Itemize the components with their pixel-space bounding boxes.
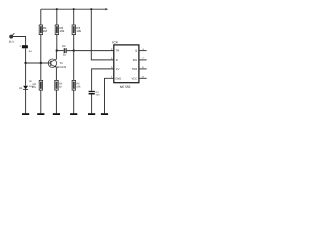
ground (R4): [37, 113, 44, 115]
node rail-R2: [56, 8, 58, 10]
wire D1 to ground: [25, 90, 27, 114]
svg-text:47k: 47k: [32, 86, 37, 89]
wire C4 to ground: [91, 95, 93, 114]
svg-text:+: +: [19, 44, 21, 48]
node trigger: [73, 49, 75, 51]
svg-text:10k: 10k: [76, 85, 81, 88]
svg-text:R: R: [116, 59, 118, 62]
svg-text:10n: 10n: [96, 94, 101, 97]
wire emitter to R5: [55, 67, 57, 80]
wire pin4 reset from rail: [91, 9, 113, 60]
wire R3 to trigger node: [73, 34, 75, 50]
node rail-R3: [73, 8, 75, 10]
node C1-D1: [24, 62, 26, 64]
wire R5 to ground: [55, 90, 57, 113]
resistor R3: [72, 25, 75, 35]
node collector: [56, 49, 58, 51]
wire rail to R3: [73, 9, 75, 25]
supply terminal arrow +9V: [106, 8, 109, 10]
pin 8 stub: [139, 77, 147, 79]
wire D1 branch: [25, 63, 27, 86]
svg-text:VCC: VCC: [132, 78, 138, 81]
wire trigger node to R6: [73, 51, 75, 81]
svg-text:10k: 10k: [59, 29, 64, 33]
capacitor C2: [63, 48, 65, 53]
ground (D1): [22, 113, 29, 115]
svg-text:DIS: DIS: [133, 59, 138, 62]
wire R1 to base node: [40, 34, 42, 63]
pin 3 stub: [139, 50, 147, 52]
jack BU1: [10, 35, 13, 38]
svg-text:GND: GND: [115, 78, 121, 81]
ground (R5): [53, 113, 60, 115]
wire rail to R2: [56, 9, 58, 25]
wire R4 branch: [40, 63, 42, 80]
diode D1: [23, 86, 28, 90]
wire VCC top rail: [41, 8, 106, 10]
resistor R4: [39, 80, 42, 90]
ground (IC): [101, 113, 108, 115]
ground (R6): [70, 113, 77, 115]
resistor R2: [55, 25, 58, 35]
wire pin5 CV: [92, 69, 114, 91]
svg-text:1N: 1N: [29, 80, 32, 83]
node rail-pin4: [90, 8, 92, 10]
wire base node: [26, 62, 51, 64]
transistor T1: [48, 59, 56, 67]
svg-text:1k: 1k: [59, 85, 62, 88]
capacitor C4: [89, 91, 95, 92]
svg-text:T1: T1: [59, 61, 63, 65]
wire pin1 GND: [105, 78, 114, 113]
resistor R6: [72, 80, 75, 90]
svg-text:1u: 1u: [29, 50, 32, 53]
svg-text:THR: THR: [132, 68, 138, 71]
pin 6 stub: [139, 68, 147, 70]
svg-text:10k: 10k: [76, 29, 81, 33]
svg-text:BU1: BU1: [9, 40, 15, 43]
svg-text:C2: C2: [62, 44, 66, 48]
node R1-R4: [40, 62, 42, 64]
ground (C4): [88, 113, 95, 115]
wire R6 to ground: [73, 90, 75, 113]
wire jack to C1: [13, 37, 26, 46]
pin 7 stub: [139, 59, 147, 61]
svg-text:D1: D1: [19, 87, 23, 90]
svg-text:1u: 1u: [63, 53, 67, 57]
svg-text:1M: 1M: [43, 29, 48, 33]
svg-text:NE 555: NE 555: [120, 85, 131, 89]
resistor R5: [55, 80, 58, 90]
svg-text:BC547B: BC547B: [57, 66, 67, 69]
svg-text:Q: Q: [135, 50, 137, 53]
wire rail to R1: [40, 9, 42, 25]
resistor R1: [39, 25, 42, 35]
wire collector node to C2: [57, 50, 64, 52]
wire C1 to base node: [25, 48, 27, 63]
wire R2 to collector node: [56, 34, 58, 50]
op IC4 NE555 box: [114, 45, 139, 83]
capacitor C1: [22, 45, 28, 48]
wire R4 to ground: [40, 90, 42, 113]
wire collector: [55, 51, 57, 60]
svg-text:IC4: IC4: [112, 41, 117, 45]
svg-text:TR: TR: [116, 50, 120, 53]
svg-text:CV: CV: [116, 68, 120, 71]
wire C2 to IC pin2: [67, 50, 114, 52]
